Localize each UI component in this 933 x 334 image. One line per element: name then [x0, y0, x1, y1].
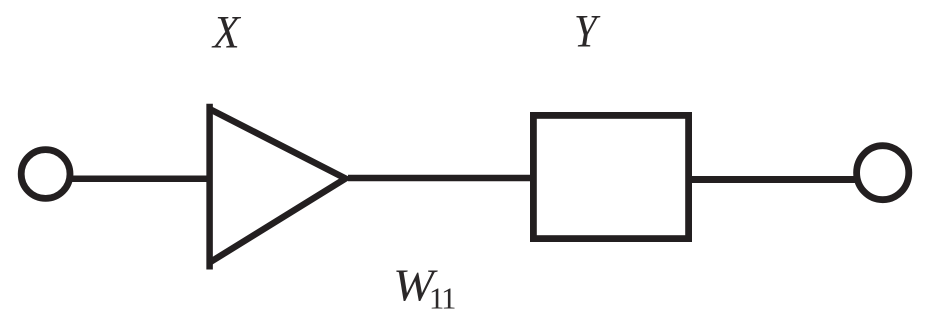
svg-text:X: X — [211, 6, 242, 58]
svg-text:Y: Y — [574, 5, 601, 57]
input terminal circle — [21, 150, 70, 199]
wire block to output — [692, 176, 857, 183]
block Y (rectangle) — [533, 115, 688, 238]
svg-text:11: 11 — [429, 282, 455, 316]
wire input to amplifier — [69, 176, 208, 183]
output terminal circle — [857, 146, 909, 200]
wire amplifier to block — [348, 175, 533, 182]
amplifier X (triangle) — [210, 104, 346, 270]
